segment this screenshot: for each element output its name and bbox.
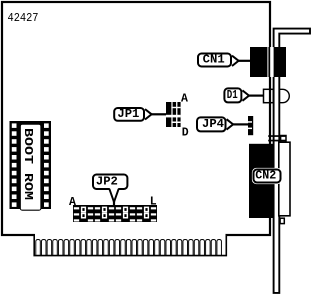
svg-text:JP4: JP4 bbox=[202, 117, 224, 131]
svg-text:42427: 42427 bbox=[8, 11, 39, 25]
svg-text:JP1: JP1 bbox=[117, 107, 139, 121]
svg-text:D: D bbox=[182, 126, 189, 139]
svg-text:CN2: CN2 bbox=[255, 169, 276, 183]
svg-text:L: L bbox=[150, 196, 157, 209]
svg-text:A: A bbox=[69, 196, 76, 209]
svg-text:JP2: JP2 bbox=[96, 174, 118, 188]
svg-text:CN1: CN1 bbox=[203, 53, 225, 67]
svg-text:D1: D1 bbox=[227, 88, 238, 102]
svg-text:BOOT ROM: BOOT ROM bbox=[21, 128, 35, 200]
svg-text:A: A bbox=[181, 93, 188, 106]
